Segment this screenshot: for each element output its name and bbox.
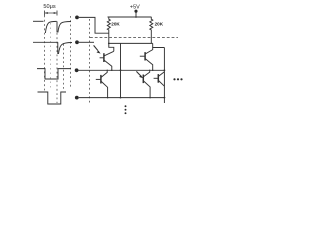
input arrow into Q1 base xyxy=(94,45,98,50)
wire T2 xyxy=(79,41,94,43)
transistor Q5 xyxy=(154,77,159,79)
transistor Q3 xyxy=(101,70,107,77)
supply rail xyxy=(108,16,152,18)
resistor R1 20K xyxy=(107,17,110,31)
dashed grid line x89.5 xyxy=(89,19,91,104)
terminal T4 xyxy=(75,96,79,100)
junction column1/bus2 xyxy=(120,69,122,71)
dashed grid line x70.5 xyxy=(70,16,72,88)
transistor Q1 xyxy=(104,51,114,56)
junction Q2 emitter/bus2 xyxy=(152,70,154,72)
jog to Q1 collector xyxy=(109,43,114,51)
svg-text:+5V: +5V xyxy=(130,5,140,11)
wire T1 to R1 bottom xyxy=(79,17,109,33)
dimension bracket ticks xyxy=(45,11,58,16)
column line 1 xyxy=(120,43,122,97)
wire +5V to rail xyxy=(135,13,137,17)
R1 stem xyxy=(108,31,110,43)
column line 2 xyxy=(163,48,165,104)
junction column2/bus3 xyxy=(164,97,166,99)
junction Q4 collector/bus2 xyxy=(149,70,150,71)
R2 stem xyxy=(150,31,152,43)
junction at rail xyxy=(135,16,137,18)
junction column2/bus2 xyxy=(164,69,166,71)
input arrow into Q4 base xyxy=(136,71,140,75)
continuation dots vertical xyxy=(125,105,127,107)
dimension arrow xyxy=(45,12,57,14)
terminal T2 xyxy=(75,40,79,44)
svg-text:50μs: 50μs xyxy=(43,4,55,10)
terminal T1 xyxy=(75,16,79,20)
transistor Q2 xyxy=(145,48,152,54)
junction Q3 collector/bus2 xyxy=(107,70,108,71)
resistor R2 20K xyxy=(150,17,153,31)
wire T3 bus xyxy=(79,69,165,71)
dashed grid line x63.5 xyxy=(63,44,65,90)
terminal T3 xyxy=(75,68,79,72)
waveform 1 (50us sawtooth) xyxy=(33,20,44,22)
dashed grid line x44.5 xyxy=(44,16,46,92)
waveform 2 (divided sawtooth) xyxy=(33,42,58,54)
dashed output bus xyxy=(90,37,178,39)
junction R1/bus xyxy=(108,43,110,45)
waveform 4 (square wave /2) xyxy=(38,92,67,104)
jog to column 2 xyxy=(153,43,165,47)
junction Q4 emitter/bus3 xyxy=(149,97,151,99)
wire T4 bus xyxy=(79,97,165,99)
dashed grid line x57 xyxy=(56,33,58,103)
junction Q1 emitter/bus2 xyxy=(111,70,113,72)
transistor Q4 xyxy=(144,70,150,76)
junction column1/bus3 xyxy=(120,97,122,99)
dashed grid line x50.5 xyxy=(50,23,52,88)
junction Q3 emitter/bus3 xyxy=(107,97,109,99)
collector bus xyxy=(109,42,153,44)
svg-text:20K: 20K xyxy=(111,22,120,27)
waveform 3 (square wave) xyxy=(37,69,71,79)
svg-text:20K: 20K xyxy=(155,22,164,27)
continuation dots horizontal xyxy=(173,78,175,80)
